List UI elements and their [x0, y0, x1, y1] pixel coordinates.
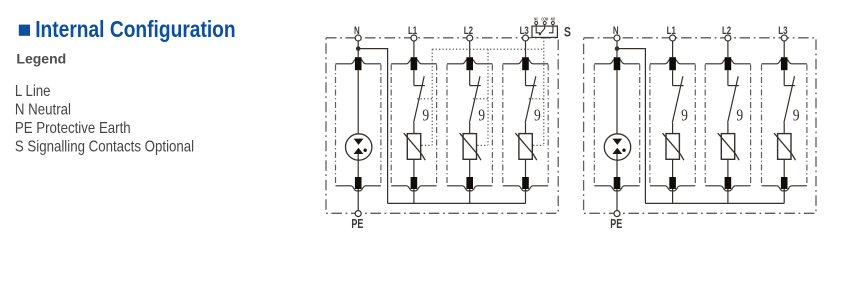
- wire terminal to disconnector L1 left: [413, 70, 415, 85]
- varistor L1 right: [666, 134, 679, 160]
- wire bottom terminal to bus L2 right: [727, 189, 729, 203]
- terminal circle L2: [467, 35, 473, 41]
- title bullet square: [19, 25, 30, 36]
- wire N junction to L-bus left: [358, 49, 387, 204]
- terminal bottom L3 right: [781, 177, 788, 189]
- terminal bottom N right: [614, 177, 621, 189]
- wire terminal to disconnector L3 left: [525, 70, 527, 85]
- svg-text:Legend: Legend: [16, 50, 66, 66]
- terminal circle L1: [411, 35, 417, 41]
- module box N right: [593, 65, 595, 186]
- socket top line L1 left: [391, 59, 436, 64]
- module box L2 left: [446, 65, 448, 186]
- svg-text:Internal Configuration: Internal Configuration: [35, 17, 235, 42]
- svg-text:N Neutral: N Neutral: [15, 101, 71, 118]
- socket bottom line L3 left: [503, 186, 548, 191]
- terminal circle N: [355, 35, 361, 41]
- wire N junction to L-bus right: [617, 49, 645, 204]
- spark gap F1 N left: [346, 134, 372, 160]
- svg-text:L Line: L Line: [15, 83, 51, 100]
- thermal disconnector switch L3 right: [784, 85, 795, 87]
- junction dot N left: [356, 46, 361, 51]
- wire N top N left: [357, 41, 359, 57]
- wire spark gap to bottom terminal N right: [616, 154, 618, 177]
- module box L1 left: [390, 65, 392, 186]
- signalling contact block S: [532, 17, 557, 37]
- svg-text:9: 9: [681, 106, 688, 125]
- svg-text:COM: COM: [541, 17, 548, 22]
- terminal top L2 right: [725, 57, 732, 70]
- wire spark gap to bottom terminal N left: [357, 154, 359, 177]
- wire disconnector to varistor L2 right: [727, 123, 729, 134]
- terminal top L1 right: [669, 57, 676, 70]
- socket bottom line N left: [336, 186, 381, 191]
- wire disconnector to varistor L1 left: [413, 123, 415, 134]
- wire terminal to spark gap N left: [357, 70, 359, 139]
- thermal disconnector switch L2 left: [470, 85, 481, 87]
- wire L3 right top: [783, 41, 785, 57]
- terminal bottom L1 right: [669, 177, 676, 189]
- socket top line N left: [336, 59, 381, 64]
- wire varistor to bottom terminal L1 left: [413, 159, 415, 177]
- thermal disconnector switch L1 right: [673, 85, 684, 87]
- module box N left: [335, 65, 337, 186]
- svg-text:PE: PE: [351, 217, 363, 231]
- socket bottom line L1 left: [391, 186, 436, 191]
- signalling dotted link L left: [487, 49, 489, 145]
- terminal top N left: [355, 57, 362, 70]
- signalling dotted bus left: [432, 48, 544, 50]
- svg-text:9: 9: [478, 106, 485, 125]
- wire L1 right top: [672, 41, 674, 57]
- wire terminal to disconnector L1 right: [672, 70, 674, 85]
- wire bottom terminal to bus L2 left: [469, 189, 471, 203]
- terminal circle L3: [523, 35, 529, 41]
- socket top line N right: [594, 59, 639, 64]
- module box L3 right: [761, 65, 763, 186]
- svg-text:9: 9: [534, 106, 541, 125]
- wire L2 right top: [727, 41, 729, 57]
- socket bottom line L3 right: [762, 186, 807, 191]
- socket bottom line L2 right: [705, 186, 750, 191]
- wire varistor to bottom terminal L2 left: [469, 159, 471, 177]
- varistor L1 left: [407, 134, 420, 160]
- signalling dotted link L left: [543, 37, 545, 145]
- wire disconnector to varistor L3 left: [525, 123, 527, 134]
- wire bottom terminal to bus L1 right: [672, 189, 674, 203]
- wire bottom terminal to bus L1 left: [413, 189, 415, 203]
- varistor L3 right: [778, 134, 791, 160]
- wire N bottom to PE left: [357, 189, 359, 211]
- terminal bottom N left: [355, 177, 362, 189]
- terminal circle L2: [725, 35, 731, 41]
- socket bottom line L1 right: [650, 186, 695, 191]
- schematic right: outer enclosure border: [584, 38, 816, 214]
- wire disconnector to varistor L2 left: [469, 123, 471, 134]
- terminal bottom L2 left: [466, 177, 473, 189]
- wire bottom terminal to bus L3 right: [783, 189, 785, 203]
- wire terminal to disconnector L2 left: [469, 70, 471, 85]
- terminal top L3 left: [522, 57, 529, 70]
- terminal bottom L1 left: [411, 177, 418, 189]
- socket bottom line L2 left: [447, 186, 492, 191]
- socket top line L2 left: [447, 59, 492, 64]
- terminal bottom L3 left: [522, 177, 529, 189]
- terminal circle L1: [670, 35, 676, 41]
- junction dot N right: [615, 46, 620, 51]
- svg-text:PE Protective Earth: PE Protective Earth: [15, 120, 131, 137]
- svg-text:9: 9: [793, 106, 800, 125]
- thermal disconnector switch L3 left: [526, 85, 537, 87]
- module box L2 right: [704, 65, 706, 186]
- wire bottom terminal to bus L3 left: [525, 189, 527, 203]
- bottom bus wire left: [388, 202, 526, 204]
- schematic left: outer enclosure border: [326, 38, 558, 214]
- wire terminal to disconnector L3 right: [783, 70, 785, 85]
- signalling dotted link L left: [431, 49, 433, 145]
- socket top line L3 right: [762, 59, 807, 64]
- wire varistor to bottom terminal L2 right: [727, 159, 729, 177]
- socket top line L2 right: [705, 59, 750, 64]
- spark gap F1 N right: [604, 134, 630, 160]
- wire L2 left top: [469, 41, 471, 57]
- wire disconnector to varistor L3 right: [783, 123, 785, 134]
- module box L3 left: [502, 65, 504, 186]
- wire terminal to spark gap N right: [616, 70, 618, 139]
- socket top line L1 right: [650, 59, 695, 64]
- terminal top L1 left: [411, 57, 418, 70]
- thermal disconnector switch L2 right: [728, 85, 739, 87]
- wire L3 left top: [525, 41, 527, 57]
- svg-text:9: 9: [736, 106, 743, 125]
- wire varistor to bottom terminal L3 left: [525, 159, 527, 177]
- terminal bottom L2 right: [725, 177, 732, 189]
- terminal circle L3: [781, 35, 787, 41]
- socket top line L3 left: [503, 59, 548, 64]
- wire varistor to bottom terminal L1 right: [672, 159, 674, 177]
- wire N bottom to PE right: [616, 189, 618, 211]
- socket bottom line N right: [594, 186, 639, 191]
- terminal circle N: [614, 35, 620, 41]
- bottom bus wire right: [645, 202, 784, 204]
- wire L1 left top: [413, 41, 415, 57]
- module box L1 right: [649, 65, 651, 186]
- svg-text:S Signalling Contacts Optional: S Signalling Contacts Optional: [15, 138, 194, 155]
- thermal disconnector switch L1 left: [414, 85, 425, 87]
- svg-text:PE: PE: [610, 217, 622, 231]
- wire varistor to bottom terminal L3 right: [783, 159, 785, 177]
- terminal top L3 right: [781, 57, 788, 70]
- varistor L2 left: [463, 134, 476, 160]
- varistor L3 left: [519, 134, 532, 160]
- wire disconnector to varistor L1 right: [672, 123, 674, 134]
- wire terminal to disconnector L2 right: [727, 70, 729, 85]
- wire N top N right: [616, 41, 618, 57]
- varistor L2 right: [721, 134, 734, 160]
- svg-text:NC: NC: [534, 17, 538, 22]
- svg-text:9: 9: [422, 106, 429, 125]
- PE terminal circle right: [614, 211, 620, 217]
- terminal top L2 left: [466, 57, 473, 70]
- PE terminal circle left: [355, 211, 361, 217]
- svg-text:NO: NO: [551, 17, 555, 22]
- terminal top N right: [614, 57, 621, 70]
- svg-text:S: S: [564, 24, 571, 40]
